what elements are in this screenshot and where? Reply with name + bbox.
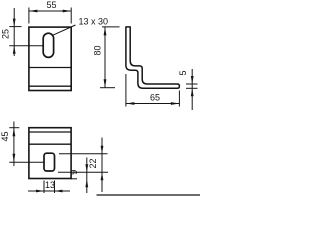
side view Z-profile <box>126 27 179 88</box>
dimension 22 line vertical <box>101 138 103 193</box>
dimension 9 arrow bottom (outside, pointing up) <box>85 179 88 187</box>
dimension 5 extension tick lower <box>186 87 198 89</box>
bottom view top double line <box>29 131 71 133</box>
leader line for slot label <box>52 25 76 36</box>
dimension 13 arrow right (outside, pointing left) <box>55 190 63 193</box>
dimension 80 extension line top <box>102 26 120 28</box>
dimension 55 line <box>29 10 71 12</box>
dimension 25 extension line bottom (slot centre) <box>9 45 43 47</box>
extension line slot bottom to right <box>58 171 108 173</box>
svg-text:65: 65 <box>150 93 160 103</box>
dimension 55 arrow left <box>29 10 38 13</box>
dimension 65 line <box>126 103 179 105</box>
dimension 22 arrow bottom (outside, pointing up) <box>101 172 104 180</box>
dimension 5 arrow lower (outside, pointing up) <box>191 88 194 96</box>
dimension 45 arrow bottom <box>13 154 16 163</box>
bottom view outline <box>29 128 71 179</box>
dimension 45 arrow top <box>13 128 16 137</box>
dimension 55 extension line left <box>28 8 30 24</box>
svg-text:9: 9 <box>69 170 79 175</box>
svg-text:13 x 30: 13 x 30 <box>79 17 109 27</box>
dimension 9 arrow top (outside, pointing down) <box>85 164 88 172</box>
dimension 65 extension line left <box>125 74 127 107</box>
dimension 25 arrow top (outside, pointing down) <box>13 19 16 27</box>
dimension 13 line <box>28 190 70 192</box>
bottom view mid line <box>29 143 71 145</box>
dimension 25 extension tick top <box>9 26 21 28</box>
svg-text:55: 55 <box>46 0 56 10</box>
border line bottom right <box>97 194 201 196</box>
dimension 45 extension tick top <box>9 127 19 129</box>
dimension 5 line vertical <box>191 69 193 110</box>
front view outline (top-left plate) <box>29 27 71 90</box>
dimension 5 extension tick upper <box>186 83 198 85</box>
dimension 65 extension line right <box>178 91 180 107</box>
dimension 13 extension line left <box>43 181 45 194</box>
front view bend line lower <box>29 85 71 87</box>
slot in bottom view <box>44 153 55 171</box>
dimension 80 arrow top <box>104 27 107 36</box>
dimension 55 arrow right <box>63 10 71 13</box>
dimension 13 extension line right <box>54 181 56 194</box>
dimension 65 arrow left <box>126 102 134 105</box>
dimension 22 arrow top (outside, pointing down) <box>101 146 104 154</box>
dimension 80 line vertical <box>104 27 106 88</box>
dimension 45 line vertical <box>13 122 15 167</box>
dimension 25 line vertical <box>13 8 15 56</box>
svg-text:5: 5 <box>178 70 188 75</box>
extension line view bottom to right <box>71 178 77 180</box>
dimension 9 line vertical <box>86 158 88 194</box>
dimension 45 extension line bottom (slot centre) <box>9 161 44 163</box>
dimension 5 arrow upper (outside, pointing down) <box>191 76 194 84</box>
slot 13x30 in front view <box>43 33 53 57</box>
dimension 80 extension line bottom <box>100 87 115 89</box>
svg-text:80: 80 <box>93 45 103 55</box>
extension line slot top to right <box>59 153 108 155</box>
front view bend line upper <box>29 67 71 69</box>
dimension 65 arrow right <box>171 102 180 105</box>
svg-text:13: 13 <box>45 180 55 190</box>
dimension 80 arrow bottom <box>104 79 107 88</box>
svg-text:45: 45 <box>0 131 10 141</box>
dimension 25 arrow bottom (outside, pointing up) <box>13 46 16 54</box>
dimension 13 arrow left (outside, pointing right) <box>36 190 44 193</box>
svg-text:25: 25 <box>1 29 11 39</box>
svg-text:22: 22 <box>88 158 98 168</box>
dimension 55 extension line right <box>70 8 72 24</box>
